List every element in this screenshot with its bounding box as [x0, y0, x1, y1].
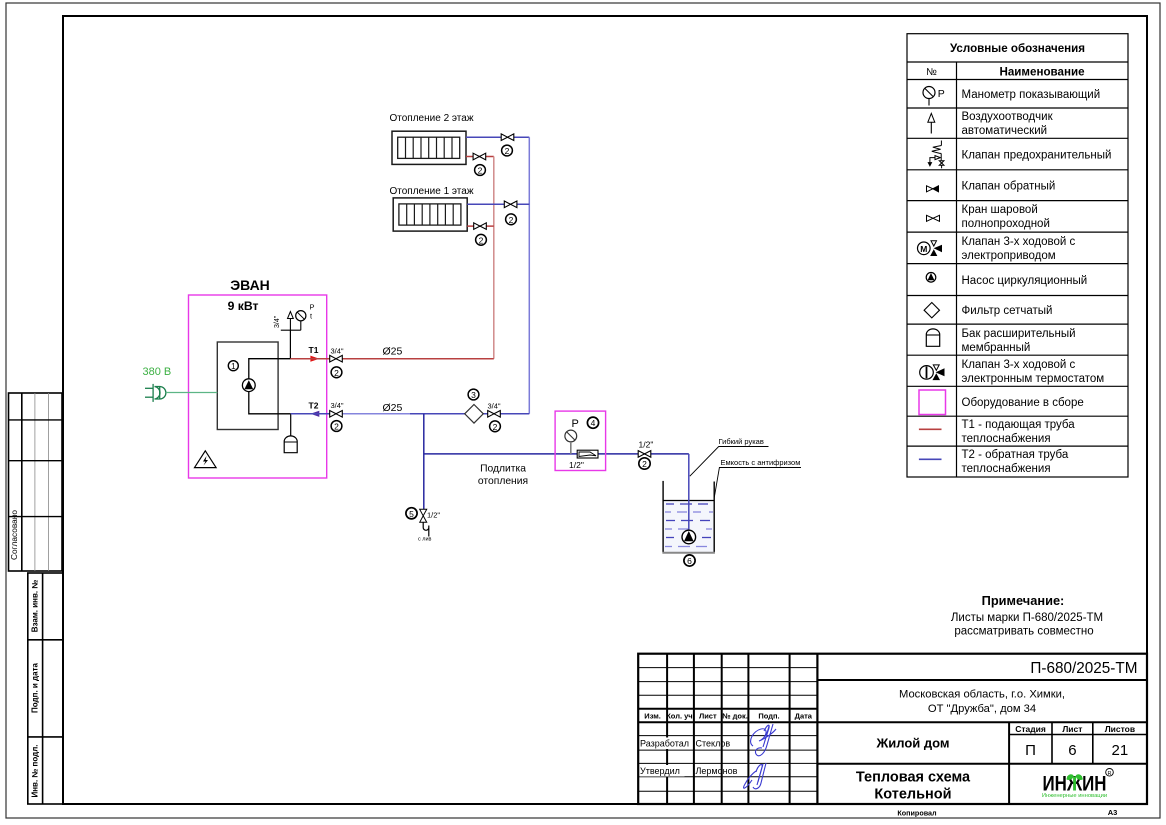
- svg-text:2: 2: [642, 459, 647, 469]
- legend: клапан 3-х ходовой с электроприводом symbol: [918, 241, 942, 256]
- signature 2: [744, 763, 766, 789]
- equipment box 4 (оборудование в сборе): [555, 411, 606, 470]
- leader line flexible hose: [690, 447, 769, 477]
- svg-text:Ø25: Ø25: [383, 402, 403, 414]
- wire: drop into antifreeze tank: [688, 454, 690, 532]
- svg-text:1/2": 1/2": [569, 460, 584, 470]
- pressure reducer: [577, 450, 598, 458]
- legend: Т1 line sample: [919, 428, 942, 430]
- expansion tank membrane: [284, 436, 297, 453]
- wire: red supply pipe radiator 1: [467, 225, 494, 227]
- svg-text:Насос циркуляционный: Насос циркуляционный: [962, 275, 1088, 287]
- electric hazard triangle: [195, 451, 217, 468]
- svg-text:Взам. инв. №: Взам. инв. №: [31, 580, 40, 633]
- svg-text:380 В: 380 В: [143, 366, 172, 378]
- svg-text:R: R: [1108, 771, 1112, 777]
- svg-text:3/4": 3/4": [331, 347, 344, 356]
- wire: 380V supply line: [166, 392, 217, 394]
- svg-text:Т2 - обратная труба: Т2 - обратная труба: [962, 449, 1069, 461]
- radiator 1st floor: [393, 198, 467, 231]
- wire: blue return pipe radiator 2: [466, 136, 529, 138]
- svg-text:Наименование: Наименование: [999, 66, 1085, 79]
- svg-text:Изм.: Изм.: [644, 712, 661, 721]
- svg-text:Тепловая схема: Тепловая схема: [856, 770, 971, 786]
- svg-text:теплоснабжения: теплоснабжения: [962, 463, 1051, 475]
- valve on radiator 1 return: [504, 201, 517, 208]
- left margin upper table: [9, 393, 63, 571]
- svg-text:2: 2: [334, 368, 339, 378]
- svg-text:электроприводом: электроприводом: [962, 250, 1056, 262]
- svg-text:6: 6: [1068, 742, 1076, 759]
- wire: black T1 stub inside boiler: [278, 358, 290, 360]
- svg-text:3/4": 3/4": [488, 402, 501, 411]
- svg-text:№ док.: № док.: [722, 712, 748, 721]
- legend: Т2 line sample: [919, 458, 942, 460]
- svg-text:Условные обозначения: Условные обозначения: [950, 42, 1085, 55]
- drain valve vertical: [420, 509, 427, 522]
- legend: клапан обратный symbol: [927, 186, 939, 192]
- wire: red T1 pipe: [290, 358, 493, 360]
- svg-text:Инженерные инновации: Инженерные инновации: [1042, 793, 1107, 799]
- svg-text:Клапан обратный: Клапан обратный: [962, 181, 1056, 193]
- node: circled 2 (rad2 return valve): [502, 145, 513, 156]
- pump P1 (boiler circulation): [242, 379, 255, 392]
- svg-text:21: 21: [1112, 742, 1129, 759]
- antifreeze tank: [662, 481, 715, 553]
- svg-text:Кол. уч.: Кол. уч.: [666, 712, 695, 721]
- title block header texts: [644, 712, 812, 721]
- svg-text:6: 6: [687, 556, 692, 566]
- svg-text:Т1: Т1: [309, 345, 319, 355]
- legend: воздухоотводчик symbol: [928, 113, 935, 133]
- svg-text:отопления: отопления: [478, 476, 528, 487]
- svg-text:теплоснабжения: теплоснабжения: [962, 433, 1051, 445]
- svg-text:Листов: Листов: [1105, 724, 1135, 734]
- svg-text:Московская область, г.о. Химки: Московская область, г.о. Химки,: [899, 689, 1065, 701]
- svg-text:Р: Р: [572, 418, 579, 430]
- wire: riser to expansion tank: [290, 414, 292, 436]
- node: circled 5 (drain valve): [406, 508, 417, 519]
- svg-text:Клапан 3-х ходовой с: Клапан 3-х ходовой с: [962, 236, 1076, 248]
- svg-text:Подлитка: Подлитка: [480, 464, 526, 475]
- node: circled 2 (rad2 supply valve): [475, 165, 486, 176]
- valve on T2: [330, 411, 343, 418]
- svg-text:Согласовано: Согласовано: [9, 510, 19, 560]
- horizontal thin rows left part: [638, 667, 817, 669]
- svg-text:Лист: Лист: [1062, 724, 1082, 734]
- svg-text:3/4": 3/4": [331, 401, 344, 410]
- node: circled 2 (T2 valve): [331, 421, 342, 432]
- wire: red riser: [493, 157, 495, 359]
- wire: blue T2 pipe: [291, 413, 343, 415]
- node: circled 2 (rad1 supply valve): [476, 234, 487, 245]
- svg-text:Утвердил: Утвердил: [640, 766, 680, 776]
- svg-text:Отопление 1 этаж: Отопление 1 этаж: [390, 186, 474, 197]
- wire: red supply pipe radiator 2: [466, 156, 494, 158]
- svg-text:Ø25: Ø25: [383, 346, 403, 358]
- valve on radiator 1 supply: [474, 223, 487, 230]
- svg-text:Бак расширительный: Бак расширительный: [962, 328, 1076, 340]
- flow arrow T2: [310, 411, 319, 417]
- svg-text:Емкость с антифризом: Емкость с антифризом: [721, 458, 801, 467]
- svg-text:Примечание:: Примечание:: [982, 593, 1065, 608]
- svg-text:3/4": 3/4": [274, 315, 281, 328]
- svg-text:Оборудование в сборе: Оборудование в сборе: [962, 397, 1084, 409]
- svg-text:Инв. № подл.: Инв. № подл.: [31, 744, 40, 797]
- svg-text:с лив: с лив: [418, 537, 432, 543]
- wire: blue return pipe radiator 1: [467, 203, 529, 205]
- wire: blue main riser: [528, 137, 530, 414]
- boiler body: [217, 342, 278, 430]
- drain hook symbol: [423, 522, 429, 536]
- svg-text:Котельной: Котельной: [874, 787, 951, 803]
- left margin lower table: [28, 573, 63, 804]
- svg-text:Р: Р: [938, 88, 945, 100]
- svg-text:Разработал: Разработал: [640, 739, 689, 749]
- svg-text:2: 2: [493, 422, 498, 432]
- svg-text:Жилой дом: Жилой дом: [875, 736, 949, 751]
- svg-text:Подп.: Подп.: [758, 712, 779, 721]
- legend: манометр symbol: [923, 87, 945, 106]
- air vent automatic: [288, 312, 294, 331]
- svg-text:рассматривать совместно: рассматривать совместно: [954, 626, 1093, 638]
- node: circled 2 (rad1 return valve): [506, 214, 517, 225]
- boiler enclosure (оборудование в сборе): [189, 295, 327, 478]
- svg-text:Клапан предохранительный: Клапан предохранительный: [962, 150, 1112, 162]
- svg-text:электронным термостатом: электронным термостатом: [962, 373, 1105, 385]
- svg-text:1: 1: [231, 362, 236, 371]
- svg-text:Листы марки П-680/2025-ТМ: Листы марки П-680/2025-ТМ: [951, 612, 1103, 624]
- svg-text:Лермонов: Лермонов: [696, 766, 738, 776]
- node: circled 4: [587, 417, 598, 428]
- svg-text:t: t: [310, 312, 313, 321]
- svg-text:5: 5: [409, 509, 414, 519]
- flow arrow T1: [310, 356, 319, 362]
- svg-text:П: П: [1025, 742, 1036, 759]
- node: circled 2 (filter valve): [490, 421, 501, 432]
- svg-text:Кран шаровой: Кран шаровой: [962, 204, 1038, 216]
- valve on fill line: [638, 451, 651, 458]
- INGIN logo: [1042, 769, 1113, 799]
- node: circled 3 (filter): [468, 389, 479, 400]
- valve after filter: [488, 411, 501, 418]
- radiator 2nd floor: [392, 131, 466, 164]
- svg-text:1/2": 1/2": [427, 511, 440, 520]
- signature 1: [751, 724, 776, 756]
- svg-text:Лист: Лист: [699, 712, 717, 721]
- svg-text:1/2": 1/2": [639, 440, 654, 450]
- wire: boiler internal loop: [249, 359, 278, 414]
- svg-text:Т1 - подающая труба: Т1 - подающая труба: [962, 419, 1076, 431]
- svg-text:ОТ "Дружба", дом 34: ОТ "Дружба", дом 34: [928, 703, 1036, 715]
- svg-text:9 кВт: 9 кВт: [228, 299, 259, 313]
- wire: riser to safety group: [289, 330, 291, 359]
- svg-text:3: 3: [471, 390, 476, 400]
- manometer P/t on boiler: [296, 303, 315, 331]
- node: circled 2 (fill valve): [639, 458, 650, 469]
- svg-text:Фильтр сетчатый: Фильтр сетчатый: [962, 305, 1053, 317]
- svg-text:Стеклов: Стеклов: [696, 739, 731, 749]
- valve on radiator 2 supply: [473, 153, 486, 160]
- filter strainer: [465, 405, 484, 424]
- svg-text:Дата: Дата: [795, 712, 813, 721]
- svg-text:Т2: Т2: [309, 401, 319, 411]
- pump P2 (tank pump): [682, 530, 696, 544]
- vertical main dividers left part: [666, 654, 668, 804]
- legend: клапан предохранительный symbol: [928, 141, 944, 169]
- svg-text:полнопроходной: полнопроходной: [962, 218, 1050, 230]
- svg-text:2: 2: [505, 146, 510, 156]
- right part rows: [817, 679, 1147, 681]
- legend: оборудование в сборе symbol: [919, 390, 946, 415]
- svg-text:Копировал: Копировал: [897, 809, 937, 818]
- node: circled 6 (tank pump): [684, 555, 695, 566]
- svg-text:2: 2: [478, 166, 483, 176]
- legend: кран шаровой symbol: [927, 215, 940, 221]
- svg-text:Р: Р: [310, 303, 315, 312]
- leader line antifreeze tank: [714, 468, 801, 498]
- wire: black T2 stub inside boiler: [278, 413, 291, 415]
- svg-text:Подп. и дата: Подп. и дата: [31, 662, 40, 712]
- svg-text:2: 2: [334, 422, 339, 432]
- legend: бак расширительный symbol: [926, 329, 939, 346]
- svg-text:№: №: [926, 67, 937, 78]
- svg-text:Стадия: Стадия: [1015, 724, 1046, 734]
- svg-text:автоматический: автоматический: [962, 125, 1048, 137]
- node: circled 2 (T1 valve): [331, 367, 342, 378]
- valve on radiator 2 return: [501, 134, 514, 141]
- wire: makeup horizontal line: [424, 453, 689, 455]
- svg-text:ЭВАН: ЭВАН: [230, 277, 270, 293]
- manometer in box 4: [565, 430, 577, 454]
- valve on T1: [330, 355, 343, 362]
- svg-text:М: М: [920, 244, 927, 254]
- svg-text:2: 2: [509, 215, 514, 225]
- legend: клапан 3-х ходовой с термостатом symbol: [920, 365, 944, 380]
- svg-text:Воздухоотводчик: Воздухоотводчик: [962, 111, 1054, 123]
- wire: makeup drop line: [423, 414, 425, 509]
- safety group bar: [281, 329, 301, 331]
- legend: фильтр symbol: [924, 303, 939, 318]
- svg-text:Манометр показывающий: Манометр показывающий: [962, 89, 1101, 101]
- svg-text:4: 4: [591, 418, 596, 428]
- svg-text:А3: А3: [1108, 808, 1118, 817]
- svg-text:2: 2: [479, 235, 484, 245]
- node: circled 1 (boiler): [228, 361, 238, 372]
- svg-text:мембранный: мембранный: [962, 342, 1031, 354]
- svg-text:Отопление 2 этаж: Отопление 2 этаж: [390, 113, 474, 124]
- svg-text:Клапан 3-х ходовой с: Клапан 3-х ходовой с: [962, 359, 1076, 371]
- power plug symbol: [145, 384, 166, 402]
- legend: насос symbol: [926, 273, 936, 283]
- svg-text:Гибкий рукав: Гибкий рукав: [719, 437, 764, 446]
- svg-text:П-680/2025-ТМ: П-680/2025-ТМ: [1030, 660, 1137, 677]
